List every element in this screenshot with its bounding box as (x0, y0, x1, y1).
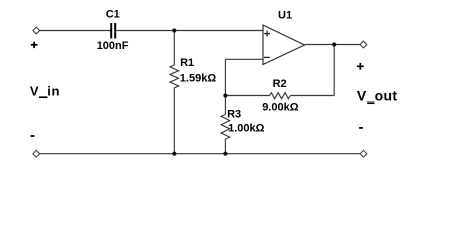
svg-text:C1: C1 (106, 9, 120, 21)
svg-text:U1: U1 (278, 10, 292, 22)
svg-text:100nF: 100nF (97, 40, 129, 52)
svg-text:R3: R3 (227, 109, 241, 121)
svg-text:1.00kΩ: 1.00kΩ (228, 123, 265, 135)
svg-text:1.59kΩ: 1.59kΩ (180, 73, 217, 85)
svg-text:R2: R2 (273, 78, 287, 90)
svg-text:V_in: V_in (30, 84, 60, 99)
svg-text:R1: R1 (180, 57, 194, 69)
svg-text:9.00kΩ: 9.00kΩ (262, 102, 299, 114)
svg-text:V_out: V_out (357, 88, 397, 104)
